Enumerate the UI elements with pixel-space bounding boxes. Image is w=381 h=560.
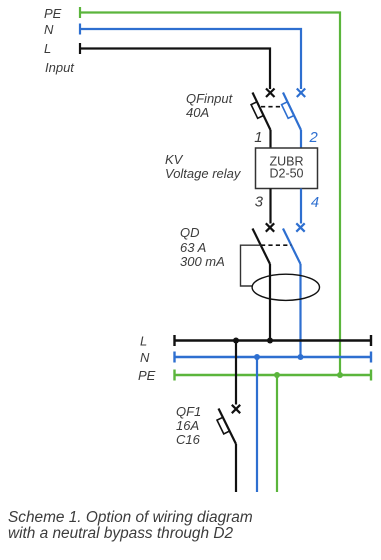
- svg-text:KV: KV: [165, 152, 184, 167]
- svg-text:with a neutral bypass through: with a neutral bypass through D2: [8, 525, 233, 542]
- bus N (blue) with end ticks: [175, 352, 372, 363]
- svg-text:PE: PE: [138, 368, 156, 383]
- svg-text:L: L: [44, 41, 51, 56]
- junction dot PE bus / PE feed: [337, 372, 343, 378]
- svg-text:40A: 40A: [186, 105, 209, 120]
- wire pin4 output (blue) from relay to QD: [300, 189, 302, 224]
- svg-text:1: 1: [254, 130, 262, 146]
- RCD QD differential transformer (ellipse): [252, 274, 319, 300]
- svg-text:3: 3: [255, 195, 264, 211]
- wire L input (black): terminal tick, horizontal run, drop to QFinput pole 1: [80, 43, 270, 89]
- RCD QD trip linkage to sensor (solid): [241, 245, 261, 286]
- svg-text:N: N: [140, 350, 150, 365]
- junction dot N bus / downstream drop: [254, 354, 260, 360]
- svg-text:Input: Input: [45, 60, 75, 75]
- svg-text:63 A: 63 A: [180, 240, 206, 255]
- wire PE downstream drop (green): [276, 375, 278, 492]
- op-amp U1: ZUBR D2-50 voltage relay box: [256, 148, 318, 189]
- breaker QFinput mechanical link (dashed): [261, 106, 282, 108]
- junction dot PE bus / downstream drop: [274, 372, 280, 378]
- junction dot L bus / QD output: [267, 338, 273, 344]
- bus L (black) with end ticks: [175, 335, 372, 346]
- junction dot N bus / QD output: [298, 354, 304, 360]
- RCD QD pole N (blue): contact cross and blade: [283, 223, 305, 357]
- svg-text:QF1: QF1: [176, 404, 201, 419]
- svg-text:Scheme 1. Option of wiring dia: Scheme 1. Option of wiring diagram: [8, 509, 253, 526]
- svg-text:L: L: [140, 334, 147, 349]
- RCD QD mechanical link (dashed): [261, 244, 291, 246]
- junction dot L bus / QF1: [233, 338, 239, 344]
- wire N downstream drop (blue): [256, 357, 258, 492]
- wire N input (blue): terminal tick, horizontal run, drop to QFinput pole 2: [80, 24, 301, 90]
- wire PE input (green): terminal tick, horizontal run, vertical drop at right: [80, 7, 340, 375]
- svg-text:PE: PE: [44, 6, 62, 21]
- svg-text:D2-50: D2-50: [269, 167, 303, 181]
- svg-text:2: 2: [309, 130, 319, 146]
- RCD QD pole L (black): contact cross and blade: [253, 223, 275, 340]
- svg-text:C16: C16: [176, 432, 201, 447]
- svg-text:Voltage relay: Voltage relay: [165, 166, 242, 181]
- wire pin3 output (black) from relay to QD: [269, 189, 271, 224]
- svg-text:16A: 16A: [176, 418, 199, 433]
- breaker QF1 (black): feed from L bus, contact cross, blade with thermal element, outgoing wire: [217, 341, 240, 493]
- breaker QFinput pole 1 (black, L): contact cross, blade with thermal element: [251, 89, 274, 149]
- svg-text:N: N: [44, 22, 54, 37]
- svg-text:QFinput: QFinput: [186, 91, 234, 106]
- breaker QFinput pole 2 (blue, N): contact cross, blade with thermal element: [282, 89, 306, 149]
- svg-text:QD: QD: [180, 225, 200, 240]
- bus PE (green) with end ticks: [175, 370, 372, 381]
- svg-text:300 mA: 300 mA: [180, 254, 225, 269]
- svg-text:4: 4: [311, 195, 319, 211]
